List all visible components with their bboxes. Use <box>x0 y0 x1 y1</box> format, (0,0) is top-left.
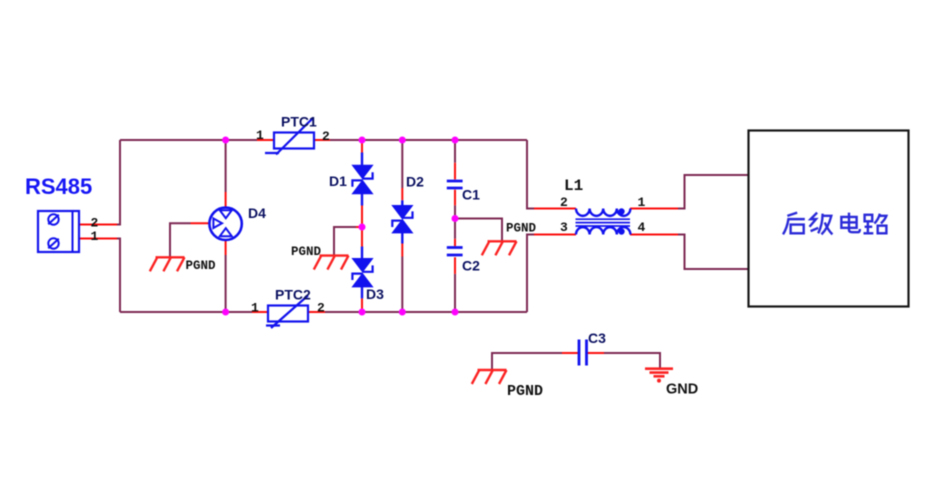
wire left vertical lower (RS485 pin1 to bottom rail) <box>79 238 120 313</box>
block 后级电路 (downstream circuit) <box>749 131 909 307</box>
svg-text:PTC2: PTC2 <box>275 287 311 303</box>
ground GND symbol (earth) <box>645 369 673 383</box>
wire D2 column <box>401 141 403 311</box>
gas discharge tube D4 <box>209 208 241 240</box>
wire L1 pin3 stub <box>526 234 576 236</box>
wire bottom rail <box>120 311 527 313</box>
svg-text:D2: D2 <box>406 174 424 190</box>
glyph lu <box>864 214 887 234</box>
common mode choke L1 <box>576 208 631 234</box>
capacitor C2 <box>447 248 463 256</box>
capacitor C3 <box>579 340 587 366</box>
svg-text:C3: C3 <box>588 330 606 346</box>
svg-text:PTC1: PTC1 <box>281 114 317 130</box>
svg-text:C2: C2 <box>462 258 480 274</box>
junction dot C1/C2 midpoint <box>452 215 459 222</box>
wire C3 net GND side <box>587 353 661 368</box>
svg-text:L1: L1 <box>564 177 583 195</box>
wire D4 column <box>225 140 227 312</box>
wire right vertical upper (top rail to L1 pin2) <box>526 140 528 209</box>
svg-text:PGND: PGND <box>186 259 217 273</box>
wire D1/D3 midpoint tap to PGND <box>334 227 360 256</box>
glyph dian <box>841 213 860 233</box>
junction dot D1/D3 midpoint <box>359 224 366 231</box>
glyph hou <box>783 213 805 235</box>
wire C3 net PGND side <box>492 353 579 370</box>
wire C1-C2 column <box>454 141 456 311</box>
ground PGND symbol (D1/D3) <box>314 256 349 270</box>
wire C1/C2 midpoint tap to PGND <box>458 219 502 242</box>
thermistor PTC1 <box>265 118 314 155</box>
wire D4 left electrode to PGND <box>170 223 213 256</box>
wire top rail <box>120 139 527 141</box>
wire left vertical upper (RS485 pin2 to top rail) <box>79 140 120 226</box>
svg-text:1: 1 <box>256 128 264 143</box>
wire D1-D3 column <box>361 141 363 311</box>
label 后级电路 text glyphs <box>783 213 886 235</box>
capacitor C1 <box>447 181 463 188</box>
junction dots bottom rail <box>222 309 458 316</box>
svg-text:1: 1 <box>638 195 646 210</box>
svg-text:PGND: PGND <box>506 222 537 236</box>
svg-text:PGND: PGND <box>291 245 322 259</box>
svg-text:D3: D3 <box>366 286 384 302</box>
junction dots top rail <box>222 137 458 144</box>
svg-text:2: 2 <box>560 195 568 210</box>
svg-text:GND: GND <box>666 382 698 398</box>
svg-text:1: 1 <box>251 301 259 316</box>
wire L1 pin1 to box upper <box>630 175 748 210</box>
svg-text:4: 4 <box>638 220 646 235</box>
svg-text:3: 3 <box>560 220 568 235</box>
wire right vertical lower (L1 pin3 to bottom rail) <box>526 235 528 313</box>
svg-text:1: 1 <box>91 229 99 244</box>
connector J RS485 <box>38 211 79 252</box>
glyph ji <box>810 213 833 235</box>
wire L1 pin4 to box lower <box>630 234 748 270</box>
svg-text:D4: D4 <box>248 205 266 221</box>
svg-text:PGND: PGND <box>507 383 543 400</box>
TVS diode D1 <box>352 153 372 206</box>
ground PGND symbol (C3) <box>472 370 507 384</box>
svg-text:2: 2 <box>322 129 330 144</box>
ground PGND symbol (D4) <box>150 257 185 271</box>
thermistor PTC2 <box>266 296 308 329</box>
svg-text:D1: D1 <box>329 173 347 189</box>
svg-text:RS485: RS485 <box>25 174 92 199</box>
svg-text:C1: C1 <box>462 187 480 203</box>
ground PGND symbol (C1/C2) <box>482 241 517 255</box>
wire L1 pin2 stub <box>526 208 576 210</box>
TVS diode D3 <box>352 247 372 299</box>
svg-text:2: 2 <box>317 301 325 316</box>
TVS diode D2 <box>392 200 412 243</box>
